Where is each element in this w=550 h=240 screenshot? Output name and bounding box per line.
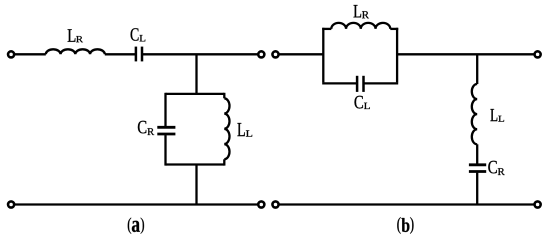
caption (b): [397, 217, 413, 234]
wire (junction down to tank): [195, 54, 197, 94]
wire: [105, 53, 136, 55]
wire block top-left stub: [322, 28, 331, 30]
wire (LL to CR): [476, 144, 478, 163]
terminal T5 (b input top): [272, 51, 278, 57]
label LR (b): [354, 5, 370, 18]
wire block bottom-left stub: [322, 82, 357, 84]
wire tank bottom to rail: [195, 165, 197, 205]
terminal T7 (b output top): [535, 51, 541, 57]
inductor LL (a): [224, 98, 229, 159]
wire block right edge: [396, 28, 398, 83]
terminal T6 (b input bottom): [272, 201, 278, 207]
wire tank left upper: [164, 93, 166, 126]
capacitor CL (b): [356, 76, 359, 92]
wire bottom rail (b): [278, 203, 535, 205]
inductor LR (a): [46, 49, 105, 54]
capacitor CR (b): [469, 163, 486, 166]
wire (junction down to LL): [476, 54, 478, 84]
caption (a): [128, 218, 144, 234]
wire (b input to block): [278, 53, 323, 55]
wire: [142, 53, 259, 55]
terminal T3 (a output top): [258, 51, 264, 57]
inductor LL (b): [472, 84, 477, 144]
wire block left edge: [322, 28, 324, 83]
label LL (b): [490, 109, 504, 122]
label LR (a): [68, 29, 83, 42]
terminal T4 (a output bottom): [258, 201, 264, 207]
label CL (b): [355, 96, 370, 109]
wire tank left lower: [164, 135, 166, 166]
inductor LR (b): [331, 23, 390, 29]
capacitor CR (a): [157, 126, 175, 129]
label CR (b): [488, 161, 504, 175]
terminal T1 (a input, top-left): [8, 51, 14, 57]
label CR (a): [138, 121, 154, 135]
terminal T8 (b output bottom): [535, 201, 541, 207]
wire block bottom-right stub: [364, 82, 399, 84]
node tank top: [166, 93, 225, 95]
label LL (a): [237, 123, 252, 137]
wire tank right lower stub: [223, 159, 225, 165]
wire block top-right stub: [390, 28, 398, 30]
node tank bottom: [166, 163, 225, 165]
label CL (a): [131, 28, 146, 41]
wire (block to output): [397, 53, 535, 55]
wire bottom rail (a): [14, 203, 259, 205]
terminal T2 (a bottom-left): [8, 201, 14, 207]
wire: [14, 53, 46, 55]
capacitor CL (a): [135, 47, 138, 62]
wire tank right upper stub: [223, 93, 225, 99]
wire (CR to rail): [476, 173, 478, 205]
